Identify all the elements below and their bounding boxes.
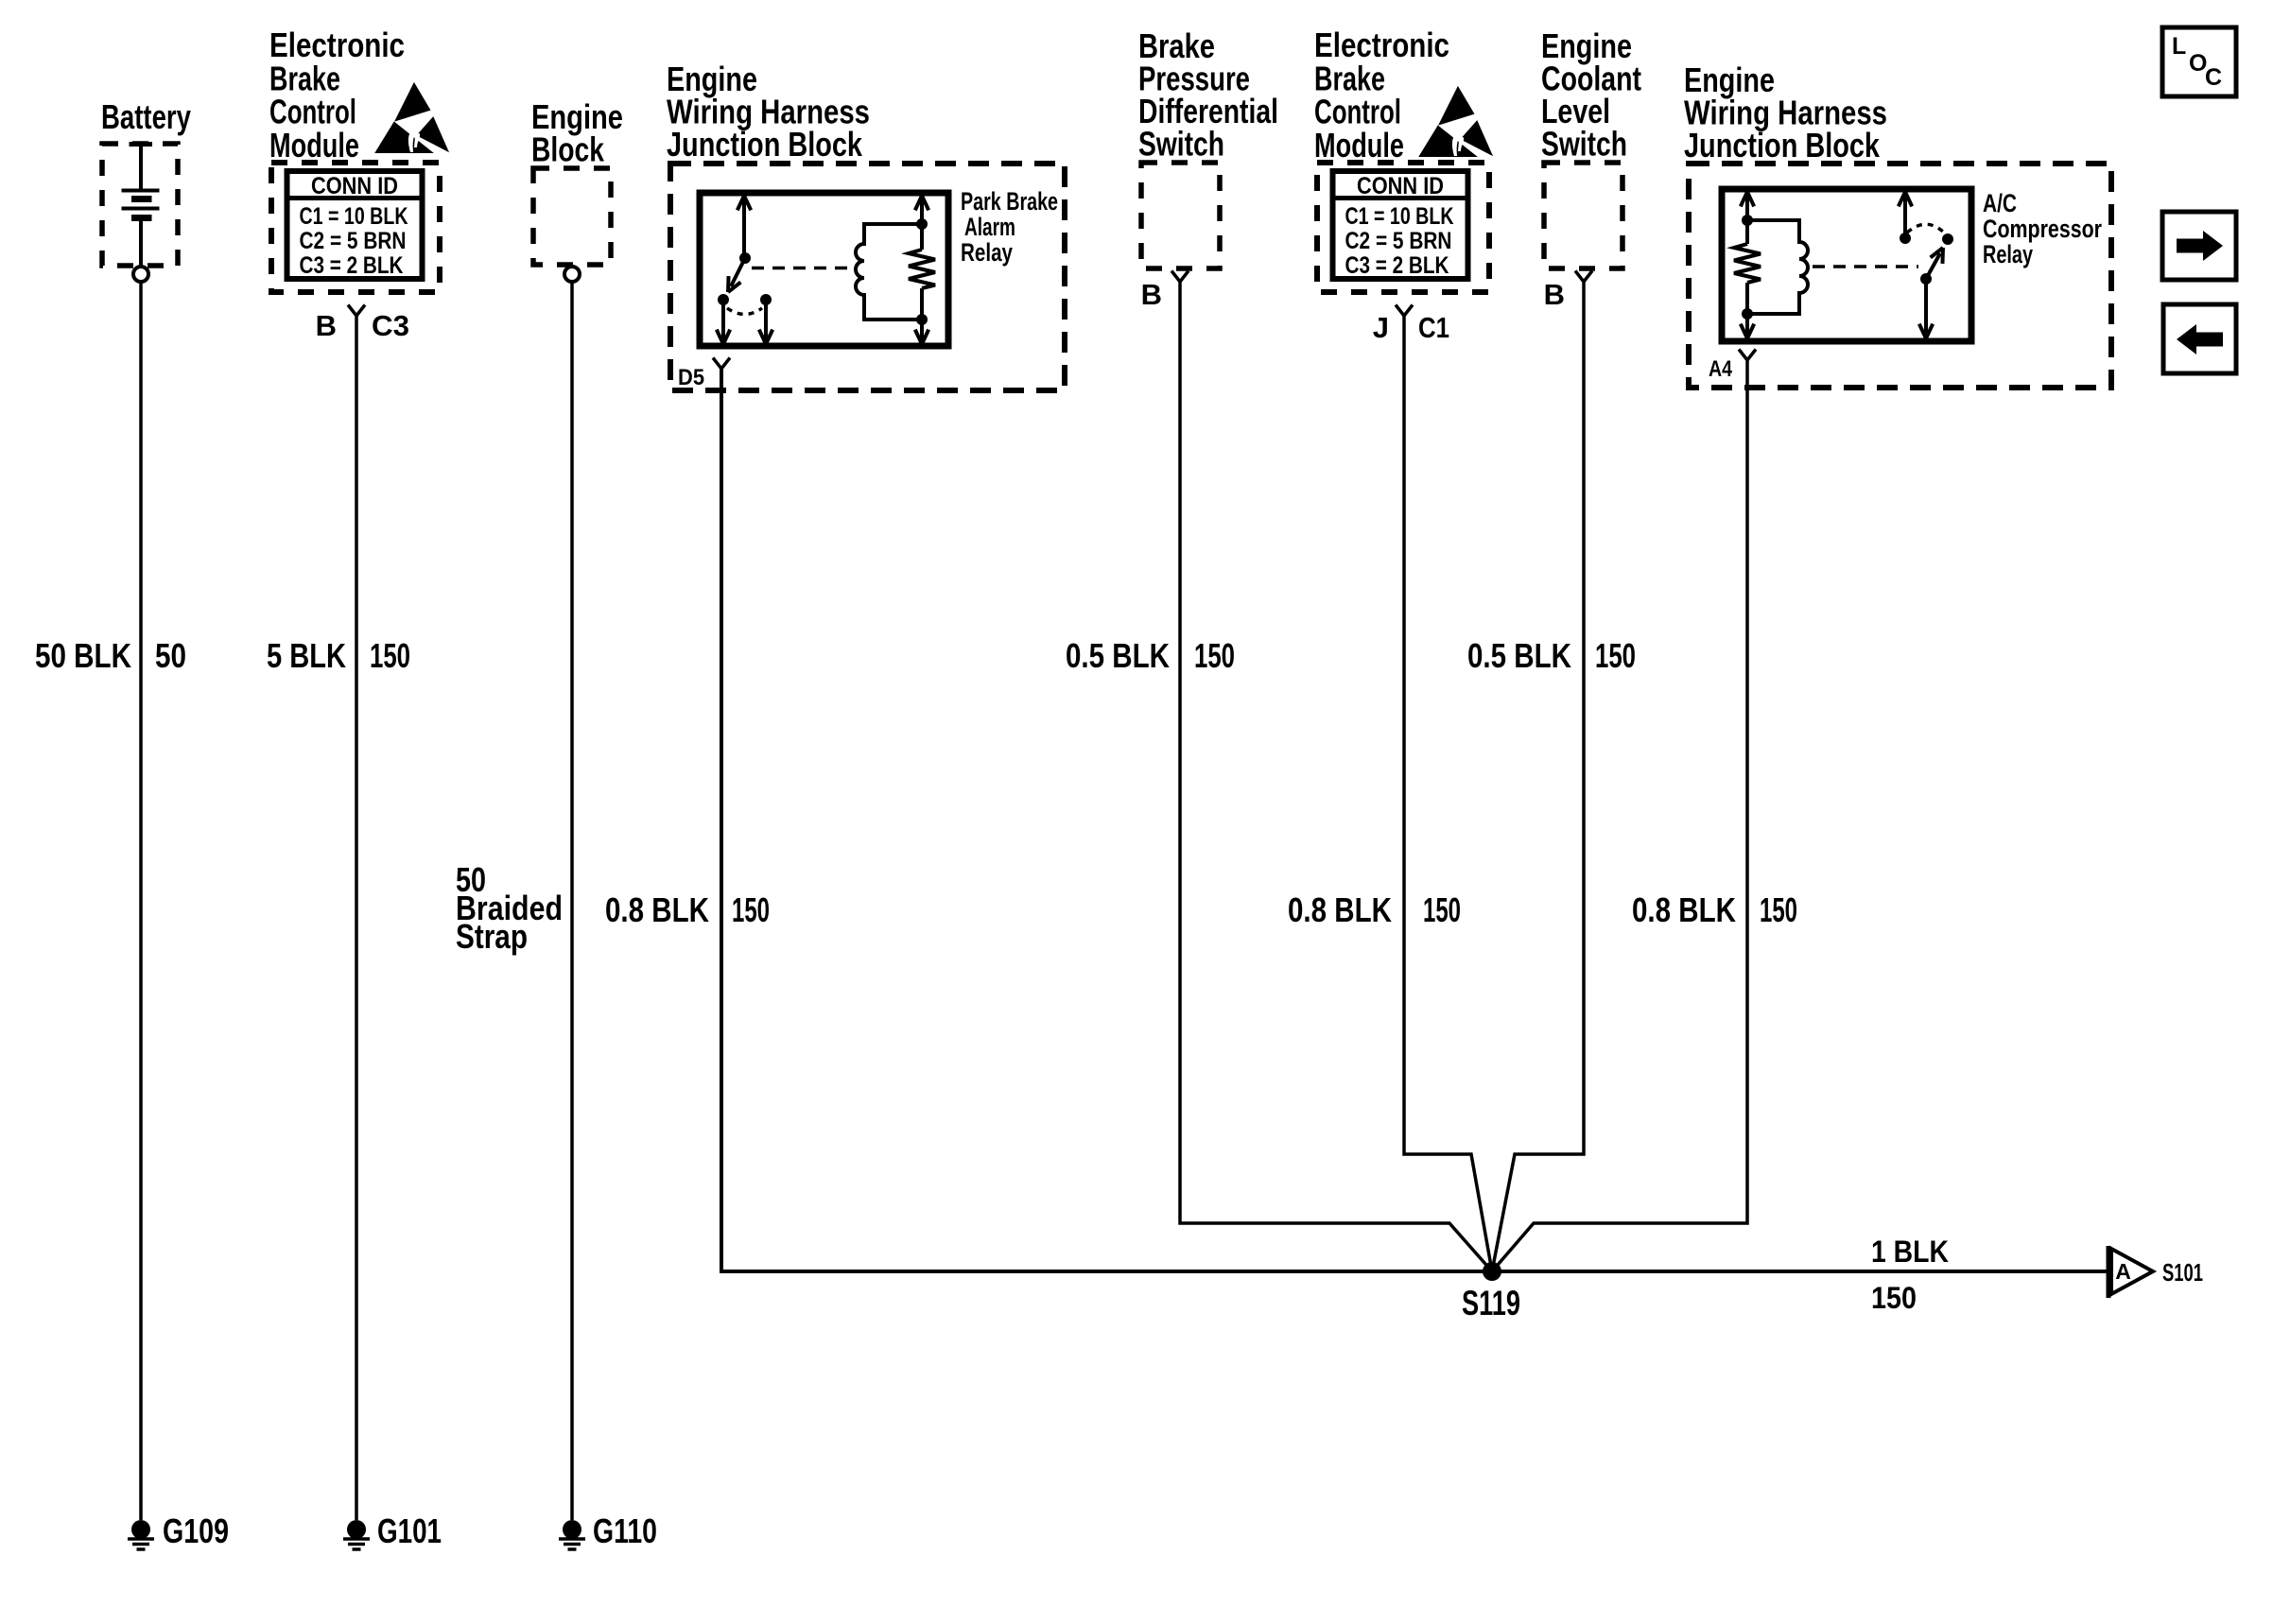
svg-text:150: 150 xyxy=(1423,890,1461,929)
svg-text:G101: G101 xyxy=(377,1512,442,1550)
svg-text:C3: C3 xyxy=(372,309,409,342)
svg-text:J: J xyxy=(1373,311,1389,344)
svg-text:G109: G109 xyxy=(163,1512,229,1550)
svg-text:A4: A4 xyxy=(1709,356,1733,382)
svg-text:150: 150 xyxy=(1595,636,1636,675)
svg-text:Module: Module xyxy=(269,126,359,164)
svg-text:0.8 BLK: 0.8 BLK xyxy=(1288,890,1392,929)
svg-text:Switch: Switch xyxy=(1138,125,1224,164)
svg-text:C1 = 10 BLK: C1 = 10 BLK xyxy=(1345,203,1454,230)
svg-text:C1 = 10 BLK: C1 = 10 BLK xyxy=(300,203,408,230)
svg-text:D5: D5 xyxy=(678,365,704,390)
svg-text:0.5 BLK: 0.5 BLK xyxy=(1066,636,1170,675)
svg-text:Module: Module xyxy=(1314,126,1404,164)
svg-text:Battery: Battery xyxy=(101,97,191,136)
svg-text:A/C: A/C xyxy=(1983,189,2017,217)
svg-text:C3 = 2 BLK: C3 = 2 BLK xyxy=(1345,252,1449,279)
svg-text:Alarm: Alarm xyxy=(964,213,1015,241)
svg-text:150: 150 xyxy=(1871,1281,1917,1315)
svg-text:G110: G110 xyxy=(593,1512,657,1550)
svg-text:B: B xyxy=(316,309,337,342)
svg-text:150: 150 xyxy=(1194,636,1235,675)
svg-text:Junction Block: Junction Block xyxy=(1684,126,1881,164)
svg-text:0.8 BLK: 0.8 BLK xyxy=(1632,890,1736,929)
svg-text:150: 150 xyxy=(370,636,410,675)
svg-text:B: B xyxy=(1141,278,1162,311)
svg-text:L: L xyxy=(2172,33,2186,60)
svg-text:0.8 BLK: 0.8 BLK xyxy=(605,890,709,929)
svg-text:Block: Block xyxy=(531,130,605,169)
svg-text:CONN ID: CONN ID xyxy=(1357,173,1444,199)
svg-text:0.5 BLK: 0.5 BLK xyxy=(1467,636,1571,675)
svg-text:S101: S101 xyxy=(2162,1258,2203,1287)
svg-text:CONN ID: CONN ID xyxy=(311,173,398,199)
svg-text:150: 150 xyxy=(1760,890,1797,929)
svg-text:1 BLK: 1 BLK xyxy=(1871,1235,1949,1269)
svg-text:Strap: Strap xyxy=(456,917,528,956)
svg-text:150: 150 xyxy=(732,890,770,929)
svg-text:Relay: Relay xyxy=(1983,240,2033,268)
svg-text:A: A xyxy=(2115,1259,2131,1284)
svg-text:C2 = 5 BRN: C2 = 5 BRN xyxy=(300,228,407,254)
svg-text:Relay: Relay xyxy=(961,238,1013,267)
svg-text:50: 50 xyxy=(155,636,186,675)
svg-text:Park Brake: Park Brake xyxy=(961,187,1058,216)
svg-text:C: C xyxy=(2205,64,2222,91)
svg-text:S119: S119 xyxy=(1462,1284,1520,1322)
svg-text:50 BLK: 50 BLK xyxy=(35,636,131,675)
svg-text:C2 = 5 BRN: C2 = 5 BRN xyxy=(1345,228,1452,254)
svg-text:5 BLK: 5 BLK xyxy=(267,636,346,675)
svg-text:C3 = 2 BLK: C3 = 2 BLK xyxy=(300,252,404,279)
svg-text:Compressor: Compressor xyxy=(1983,215,2102,243)
svg-text:Switch: Switch xyxy=(1541,125,1627,164)
svg-text:C1: C1 xyxy=(1418,311,1449,344)
svg-text:B: B xyxy=(1544,278,1565,311)
svg-text:Junction Block: Junction Block xyxy=(667,125,863,164)
